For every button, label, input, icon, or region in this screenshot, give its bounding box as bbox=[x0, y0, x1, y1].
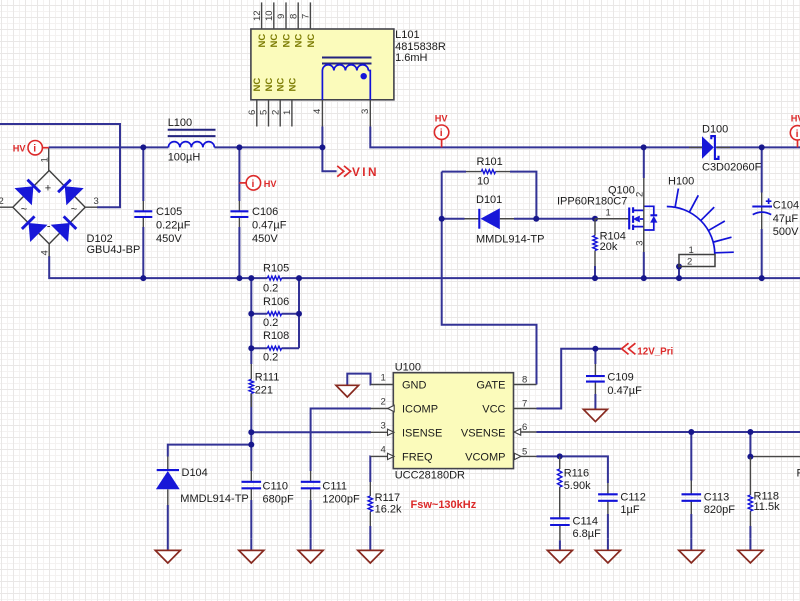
svg-text:Fsw~130kHz: Fsw~130kHz bbox=[411, 499, 477, 511]
svg-text:i: i bbox=[796, 128, 799, 140]
resistor R106 bbox=[267, 312, 281, 316]
wire R106 row bbox=[251, 313, 299, 315]
wire Q100 drain to HV rail bbox=[643, 147, 645, 178]
resistor R108 bbox=[267, 346, 281, 350]
wire L101 pin4 lead bbox=[321, 127, 323, 148]
svg-text:0.47µF: 0.47µF bbox=[252, 219, 287, 231]
svg-text:8: 8 bbox=[288, 14, 299, 19]
op-amp U100 (UCC28180DR controller) bbox=[393, 373, 513, 469]
resistor R111 bbox=[249, 364, 253, 407]
label D102 bbox=[87, 233, 141, 256]
svg-text:C104: C104 bbox=[773, 200, 799, 212]
svg-text:NC: NC bbox=[269, 34, 280, 48]
pin 2 of U100 bbox=[371, 397, 395, 412]
L101 pin 6 bbox=[247, 100, 258, 127]
inductor L100 bbox=[168, 130, 216, 148]
resistor R104 bbox=[593, 219, 597, 266]
svg-text:R111: R111 bbox=[255, 372, 280, 384]
svg-text:R101: R101 bbox=[477, 156, 503, 168]
wire VCOMP net bbox=[537, 456, 608, 538]
svg-text:VCC: VCC bbox=[482, 404, 505, 416]
label Q100 bbox=[557, 184, 635, 207]
svg-text:2: 2 bbox=[687, 256, 692, 267]
HV probe top mid bbox=[434, 125, 448, 147]
svg-text:1: 1 bbox=[689, 245, 694, 256]
label R111 bbox=[255, 372, 280, 397]
svg-text:R1: R1 bbox=[797, 468, 800, 480]
label R108 bbox=[263, 330, 289, 364]
svg-text:820pF: 820pF bbox=[704, 504, 735, 516]
svg-text:2: 2 bbox=[634, 192, 645, 197]
transistor Q100 bbox=[595, 206, 657, 230]
capacitor C105 bbox=[134, 201, 152, 227]
label C113 bbox=[704, 492, 735, 517]
svg-text:FREQ: FREQ bbox=[402, 452, 433, 464]
HV probe mid bbox=[239, 176, 260, 190]
label C110 bbox=[263, 480, 294, 505]
svg-text:450V: 450V bbox=[156, 233, 182, 245]
L101 NC labels bbox=[252, 34, 317, 92]
label R104 bbox=[600, 231, 626, 254]
capacitor C104 (polarized) bbox=[752, 193, 772, 230]
svg-text:5.90k: 5.90k bbox=[564, 480, 591, 492]
svg-text:9: 9 bbox=[276, 14, 287, 19]
pin 2 of Q100 bbox=[634, 178, 645, 252]
resistor R118 bbox=[748, 457, 752, 526]
svg-text:1µF: 1µF bbox=[620, 504, 639, 516]
label H100 bbox=[668, 175, 694, 187]
svg-text:0.22µF: 0.22µF bbox=[156, 219, 191, 231]
svg-text:100µH: 100µH bbox=[168, 152, 201, 164]
diode D104 bbox=[156, 457, 180, 506]
svg-text:+: + bbox=[45, 183, 51, 195]
svg-text:12V_Pri: 12V_Pri bbox=[637, 346, 673, 357]
svg-text:NC: NC bbox=[276, 78, 287, 92]
capacitor C109 bbox=[586, 364, 605, 394]
svg-text:1.6mH: 1.6mH bbox=[395, 52, 427, 64]
pin 3 of U100 bbox=[371, 421, 395, 436]
svg-text:i: i bbox=[440, 127, 443, 139]
wire C113 branch bbox=[690, 432, 692, 539]
svg-text:i: i bbox=[33, 143, 36, 155]
ground at D104 bbox=[155, 539, 180, 563]
pin 4 of D102 bbox=[39, 244, 50, 257]
svg-text:6: 6 bbox=[522, 422, 527, 433]
pin 3 of D102 bbox=[85, 196, 99, 207]
net label HV right bbox=[791, 114, 800, 124]
svg-text:ICOMP: ICOMP bbox=[402, 404, 438, 416]
svg-text:R108: R108 bbox=[263, 330, 289, 342]
transformer L101 body bbox=[251, 29, 394, 100]
svg-text:GND: GND bbox=[402, 380, 427, 392]
ground at U100 pin1 bbox=[336, 378, 359, 398]
svg-text:C113: C113 bbox=[704, 492, 729, 504]
svg-text:R116: R116 bbox=[564, 468, 589, 480]
pin 2 of D102 bbox=[0, 196, 13, 207]
label D101 bbox=[476, 194, 544, 245]
svg-text:1: 1 bbox=[282, 110, 293, 115]
L101 pin 5 bbox=[259, 100, 270, 127]
ground at C110 bbox=[239, 539, 264, 563]
svg-text:C110: C110 bbox=[263, 480, 288, 492]
svg-text:1: 1 bbox=[39, 157, 50, 162]
svg-text:6: 6 bbox=[247, 110, 258, 115]
svg-text:221: 221 bbox=[255, 385, 273, 397]
wire R118 branch bbox=[750, 432, 800, 539]
svg-text:3: 3 bbox=[360, 109, 371, 114]
svg-text:7: 7 bbox=[522, 398, 527, 409]
wire H100 pin2 to bottom rail bbox=[678, 267, 680, 279]
label D104 bbox=[180, 467, 248, 505]
label R118 bbox=[754, 491, 781, 513]
label C106 bbox=[252, 206, 287, 245]
svg-text:0.2: 0.2 bbox=[263, 317, 278, 329]
svg-text:6.8µF: 6.8µF bbox=[573, 528, 602, 540]
svg-text:VSENSE: VSENSE bbox=[461, 428, 506, 440]
label partial resistor at right edge bbox=[797, 468, 800, 480]
net label HV mid bbox=[264, 179, 278, 189]
net label HV top mid bbox=[435, 114, 449, 124]
wire R108 row bbox=[251, 347, 299, 349]
svg-text:C3D02060F: C3D02060F bbox=[702, 161, 762, 173]
port VIN bbox=[337, 166, 350, 177]
wire HV rail left section bbox=[49, 146, 323, 148]
svg-text:R117: R117 bbox=[375, 492, 400, 504]
pin 7 of U100 bbox=[514, 398, 537, 409]
svg-text:H100: H100 bbox=[668, 175, 694, 187]
ground at R117 bbox=[358, 539, 383, 563]
ground at R118 bbox=[738, 539, 763, 563]
capacitor C110 bbox=[242, 471, 262, 500]
label C104 bbox=[773, 200, 799, 238]
L101 pin 1 bbox=[282, 100, 293, 127]
label R101 bbox=[477, 156, 503, 188]
svg-text:NC: NC bbox=[287, 78, 298, 92]
svg-text:L100: L100 bbox=[168, 117, 192, 129]
wire VIN branch bbox=[322, 147, 336, 171]
capacitor C112 bbox=[598, 483, 618, 514]
svg-text:NC: NC bbox=[281, 34, 292, 48]
wire Q100 source to bottom rail bbox=[643, 252, 645, 278]
wire D104 branch bbox=[168, 445, 252, 539]
svg-text:HV: HV bbox=[791, 114, 800, 124]
svg-text:3: 3 bbox=[381, 421, 386, 432]
svg-text:U100: U100 bbox=[395, 362, 421, 374]
diode D101 bbox=[465, 208, 515, 229]
wire sense ladder right vertical bbox=[298, 278, 300, 348]
svg-text:20k: 20k bbox=[600, 241, 618, 253]
svg-text:R105: R105 bbox=[263, 263, 289, 275]
L101 pin 10 bbox=[264, 2, 275, 29]
svg-text:HV: HV bbox=[435, 114, 449, 124]
label R116 bbox=[564, 468, 591, 492]
svg-text:8: 8 bbox=[522, 374, 527, 385]
svg-text:NC: NC bbox=[306, 34, 317, 48]
ground at C114 bbox=[547, 540, 572, 563]
svg-text:3: 3 bbox=[94, 196, 99, 207]
svg-text:500V: 500V bbox=[773, 226, 799, 238]
svg-text:4: 4 bbox=[381, 445, 386, 456]
svg-text:2: 2 bbox=[0, 196, 4, 207]
svg-text:R106: R106 bbox=[263, 296, 289, 308]
svg-text:NC: NC bbox=[264, 78, 275, 92]
label U100 bbox=[395, 362, 465, 482]
label L101 bbox=[395, 29, 446, 64]
svg-text:7: 7 bbox=[301, 14, 312, 19]
svg-text:2: 2 bbox=[381, 397, 386, 408]
label C105 bbox=[156, 206, 191, 245]
wire VSENSE net bbox=[537, 431, 800, 433]
wire L101 pin3 lead and HV rail right section bbox=[370, 127, 800, 148]
L101 pin 12 bbox=[252, 2, 263, 29]
wire C109 branch bbox=[594, 349, 596, 399]
svg-text:MMDL914-TP: MMDL914-TP bbox=[476, 233, 544, 245]
svg-text:C112: C112 bbox=[620, 492, 645, 504]
label C111 bbox=[322, 480, 360, 505]
svg-text:~: ~ bbox=[21, 204, 27, 216]
svg-text:UCC28180DR: UCC28180DR bbox=[395, 470, 465, 482]
svg-text:12: 12 bbox=[252, 10, 263, 21]
svg-text:C114: C114 bbox=[573, 516, 598, 528]
wire R104 branch bbox=[594, 266, 596, 278]
L101 pin 4 bbox=[312, 100, 323, 127]
pin 6 of U100 bbox=[514, 422, 537, 435]
L101 pin 9 bbox=[276, 2, 287, 29]
svg-text:D100: D100 bbox=[702, 123, 728, 135]
pin 5 of U100 bbox=[514, 446, 537, 459]
label C112 bbox=[620, 492, 645, 516]
capacitor C114 bbox=[550, 518, 570, 540]
capacitor C113 bbox=[682, 481, 702, 515]
resistor R116 bbox=[558, 456, 562, 518]
HV probe right bbox=[790, 126, 800, 148]
svg-text:i: i bbox=[252, 178, 255, 190]
bridge rectifier D102 bbox=[13, 171, 85, 244]
svg-text:680pF: 680pF bbox=[263, 494, 294, 506]
wire GND pin1 to ground bbox=[347, 374, 371, 385]
svg-text:C109: C109 bbox=[607, 372, 633, 384]
pin 8 of U100 bbox=[514, 374, 537, 385]
L101 pin 8 bbox=[288, 2, 299, 29]
L101 pin 3 bbox=[360, 100, 371, 127]
note Fsw~130kHz bbox=[411, 499, 477, 511]
ground at C112 bbox=[595, 539, 620, 563]
capacitor C106 bbox=[230, 201, 248, 227]
wire C105 branch bbox=[142, 147, 144, 278]
svg-text:MMDL914-TP: MMDL914-TP bbox=[180, 493, 248, 505]
svg-text:C111: C111 bbox=[322, 480, 347, 492]
L101 pin 2 bbox=[270, 100, 281, 127]
svg-text:VCOMP: VCOMP bbox=[465, 452, 505, 464]
pin 1 of D102 bbox=[39, 148, 50, 171]
pin 1 of Q100 bbox=[606, 207, 611, 218]
svg-text:1: 1 bbox=[381, 373, 386, 384]
net label HV left bbox=[13, 144, 27, 154]
wire C104 branch bbox=[761, 147, 763, 278]
svg-text:D104: D104 bbox=[182, 467, 208, 479]
svg-text:47µF: 47µF bbox=[773, 213, 799, 225]
svg-text:1: 1 bbox=[606, 207, 611, 218]
svg-text:2: 2 bbox=[270, 110, 281, 115]
svg-text:3: 3 bbox=[634, 241, 645, 246]
svg-text:GBU4J-BP: GBU4J-BP bbox=[87, 244, 141, 256]
svg-text:HV: HV bbox=[264, 179, 278, 189]
svg-text:11.5k: 11.5k bbox=[754, 501, 781, 513]
port 12V_Pri bbox=[622, 343, 636, 354]
wire bridge pin4 to bottom rail bbox=[49, 256, 800, 278]
label C109 bbox=[607, 372, 642, 397]
pin 3 of Q100 bbox=[634, 230, 645, 253]
net label 12V_Pri bbox=[637, 346, 673, 357]
svg-text:0.47µF: 0.47µF bbox=[607, 385, 642, 397]
svg-text:10: 10 bbox=[264, 10, 275, 21]
label C114 bbox=[573, 516, 602, 540]
svg-text:4: 4 bbox=[312, 109, 323, 114]
svg-text:ISENSE: ISENSE bbox=[402, 428, 442, 440]
svg-text:NC: NC bbox=[252, 78, 263, 92]
pin 1 of U100 bbox=[371, 373, 394, 385]
svg-text:0.2: 0.2 bbox=[263, 283, 278, 295]
svg-text:1200pF: 1200pF bbox=[322, 494, 360, 506]
wire sense ladder left vertical bbox=[250, 278, 252, 539]
svg-text:C105: C105 bbox=[156, 206, 182, 218]
resistor R105 bbox=[267, 276, 281, 280]
wire VCC net to 12V_Pri and C109 bbox=[537, 349, 622, 409]
svg-text:~: ~ bbox=[71, 204, 77, 216]
svg-text:-: - bbox=[47, 221, 51, 233]
ground at C111 bbox=[298, 539, 323, 563]
svg-text:10: 10 bbox=[477, 176, 489, 188]
wire C106 branch bbox=[238, 147, 240, 278]
svg-text:D101: D101 bbox=[476, 194, 502, 206]
label R105 bbox=[263, 263, 289, 295]
wire ISENSE net bbox=[251, 431, 371, 433]
wire top-left loop to bridge pin 3 bbox=[0, 124, 120, 207]
label L100 bbox=[168, 117, 201, 164]
net label VIN bbox=[352, 165, 379, 179]
svg-text:5: 5 bbox=[522, 446, 527, 457]
capacitor C111 bbox=[301, 471, 321, 500]
wire FREQ net to R117 bbox=[369, 456, 371, 539]
pin 4 of U100 bbox=[371, 445, 395, 460]
svg-text:16.2k: 16.2k bbox=[375, 503, 402, 515]
ground at C109 bbox=[583, 399, 607, 422]
L101 pin 7 bbox=[301, 2, 312, 29]
resistor R117 bbox=[368, 482, 372, 526]
svg-text:4: 4 bbox=[39, 250, 50, 255]
svg-text:5: 5 bbox=[259, 110, 270, 115]
svg-text:GATE: GATE bbox=[476, 380, 505, 392]
svg-text:HV: HV bbox=[13, 144, 27, 154]
label R106 bbox=[263, 296, 289, 329]
label R117 bbox=[375, 492, 402, 516]
diode D100 bbox=[689, 136, 730, 159]
resistor R101 bbox=[466, 170, 510, 174]
svg-text:NC: NC bbox=[257, 34, 268, 48]
svg-text:VIN: VIN bbox=[352, 165, 379, 179]
wire ICOMP net to C111 bbox=[311, 409, 371, 539]
heatsink H100 bbox=[667, 189, 734, 268]
ground at C113 bbox=[679, 539, 704, 563]
svg-text:450V: 450V bbox=[252, 233, 278, 245]
svg-text:NC: NC bbox=[294, 34, 305, 48]
svg-text:L101: L101 bbox=[395, 29, 419, 41]
svg-text:0.2: 0.2 bbox=[263, 352, 278, 364]
wire gate drive net D101/R101 to GATE pin bbox=[442, 172, 595, 385]
svg-text:IPP60R180C7: IPP60R180C7 bbox=[557, 195, 627, 207]
HV probe left bbox=[28, 141, 49, 155]
svg-text:C106: C106 bbox=[252, 206, 278, 218]
label D100 bbox=[702, 123, 762, 173]
